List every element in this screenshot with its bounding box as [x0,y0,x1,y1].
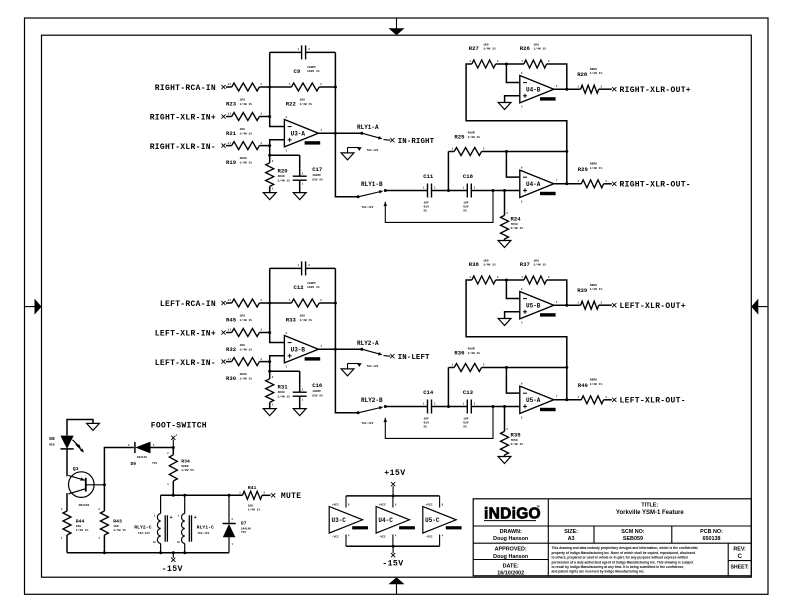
wire RIGHT-XLR-IN+ input row [226,116,232,118]
svg-text:IN-LEFT: IN-LEFT [398,354,430,362]
op-amp U4-C power section [376,507,409,534]
svg-text:68R0: 68R0 [590,284,597,287]
title block frame [473,499,751,576]
wire inverter minus input [506,64,519,83]
wire Q3 collector to R44 [66,493,68,511]
svg-text:C12: C12 [294,284,305,291]
svg-text:C11: C11 [423,173,434,180]
junction U4B output [565,88,568,91]
junction RLY-B contact [384,189,387,192]
svg-text:7K50: 7K50 [511,439,518,442]
wire LEFT-XLR-IN+ input row [226,332,232,334]
svg-text:1/4W 1%: 1/4W 1% [240,160,253,164]
svg-text:1/4W 1%: 1/4W 1% [240,318,253,322]
svg-text:2N4403: 2N4403 [79,504,90,507]
svg-text:1/2W 5%: 1/2W 5% [181,468,194,472]
relay coil RLY2-C [160,495,162,513]
svg-text:PCB NO:: PCB NO: [700,529,723,535]
wire RLY1-B NC branch [384,202,388,206]
svg-text:63V: 63V [463,206,469,209]
wire R27-R26 [496,279,524,281]
svg-text:100V 1%: 100V 1% [307,286,320,289]
wire R22 to output node [319,302,335,304]
left centering mark [25,306,36,308]
svg-text:permission of a duly authorize: permission of a duly authorized agent of… [552,560,695,564]
ground under R24 [498,457,511,464]
svg-text:U3-C: U3-C [332,517,347,524]
svg-text:iNDiGO: iNDiGO [484,506,541,523]
svg-text:1K0: 1K0 [240,315,246,318]
junction output feedback [565,182,568,185]
op-amp U3-A [284,120,318,147]
wire output stage loop [466,64,567,184]
wire C11 to C18 [432,190,468,192]
resistor R32 [232,329,260,337]
svg-text:1/4W 1%: 1/4W 1% [468,135,481,139]
svg-text:-15V: -15V [382,560,403,569]
resistor R37 [524,276,547,284]
svg-text:1K0: 1K0 [300,99,306,102]
wire U4A output [554,399,582,401]
svg-text:U4-A: U4-A [526,181,541,188]
svg-text:T02-12V: T02-12V [138,532,150,535]
svg-text:1/4W 1%: 1/4W 1% [534,47,547,51]
op-amp U3-B [284,336,318,363]
relay coil RLY1-C [184,495,186,513]
wire U4-C power pins [392,496,394,508]
svg-text:1UF: 1UF [424,202,430,205]
svg-text:U3-B: U3-B [291,346,306,353]
svg-text:R39: R39 [577,287,588,294]
svg-text:DRAWN:: DRAWN: [500,529,522,535]
svg-text:RIGHT-XLR-IN+: RIGHT-XLR-IN+ [150,114,216,123]
bottom centering mark [396,584,398,595]
svg-text:-VCC: -VCC [379,535,386,538]
svg-text:1N4148: 1N4148 [137,456,147,459]
svg-text:+15V: +15V [384,469,405,478]
junction output feedback [565,398,568,401]
svg-text:1/4W 1%: 1/4W 1% [534,263,547,267]
svg-text:R31: R31 [278,384,289,391]
svg-text:63V 5%: 63V 5% [312,394,323,397]
svg-text:REV:: REV: [733,547,746,553]
junction supply rails [392,494,395,497]
junction mid node [447,405,450,408]
capacitor C14 [427,400,429,414]
svg-text:16/10/2002: 16/10/2002 [497,571,524,577]
svg-text:-VCC: -VCC [425,535,432,538]
svg-text:SCM NO:: SCM NO: [621,529,645,535]
svg-text:U4-C: U4-C [378,517,393,524]
wire negative supply rail [346,545,440,547]
svg-text:Doug Hanson: Doug Hanson [493,536,528,542]
svg-text:Q3: Q3 [73,466,79,472]
svg-text:D9: D9 [131,461,137,467]
capacitor C16 [270,370,300,372]
op-amp U5-B [520,292,554,319]
junction summing node [268,86,271,89]
svg-text:APPROVED:: APPROVED: [495,547,527,553]
svg-text:T02-12V: T02-12V [198,532,210,535]
resistor R24 to ground [504,191,506,216]
svg-text:4K99: 4K99 [240,157,247,160]
svg-text:1K0: 1K0 [240,128,246,131]
node -15V [392,546,394,553]
node input port RIGHT-XLR-IN- [221,144,225,148]
wire LEFT-RCA-IN input row [226,302,232,304]
svg-text:SIZE:: SIZE: [564,529,578,535]
wire LED to Q3 emitter [66,449,68,476]
svg-text:1K0: 1K0 [240,99,246,102]
svg-text:IN-RIGHT: IN-RIGHT [398,138,435,146]
node input port RIGHT-RCA-IN [221,85,225,89]
svg-text:499R: 499R [468,348,475,351]
svg-text:C14: C14 [423,389,434,396]
svg-text:1/4W 1%: 1/4W 1% [240,376,253,380]
wire inverting input drop [506,152,519,178]
wire noninverting input [270,140,285,155]
svg-text:C16: C16 [312,382,323,389]
wire LED anode to ground [67,420,93,436]
svg-text:+VCC: +VCC [379,503,386,506]
svg-text:1UF: 1UF [424,418,430,421]
node input port LEFT-XLR-IN- [221,360,225,364]
ground under C17 [293,193,306,200]
ground under R20 [263,409,276,416]
junction feedback node [334,302,337,305]
LED D8 [60,436,73,449]
junction feedback tee [505,366,508,369]
relay switch RLY2-B [357,411,360,414]
svg-text:63V: 63V [463,422,469,425]
wire C18 to op-amp + [471,406,520,408]
svg-text:T02-12V: T02-12V [367,365,379,368]
svg-text:100PF: 100PF [312,390,321,393]
svg-text:RLY1-B: RLY1-B [361,181,383,188]
wire op-amp output [318,348,361,350]
resistor R43 [100,511,108,535]
svg-text:FOOT-SWITCH: FOOT-SWITCH [151,422,207,431]
svg-text:1K0: 1K0 [534,259,540,262]
ground above LED [87,423,100,430]
ground under R20 [263,193,276,200]
right centering mark [758,306,769,308]
resistor R25 feedback [447,152,449,191]
svg-text:1/4W 1%: 1/4W 1% [483,47,496,51]
junction xlr-minus node [268,144,271,147]
wire R26 to output [547,64,567,89]
svg-text:63V: 63V [424,206,430,209]
svg-text:U3-A: U3-A [291,130,306,137]
svg-text:to recall by Indigo Manufactur: to recall by Indigo Manufacturing at any… [552,565,685,569]
svg-text:1/4W 1%: 1/4W 1% [248,508,261,512]
svg-text:1/4W 1%: 1/4W 1% [300,318,313,322]
node -15V footswitch [172,553,174,558]
top centering mark [396,18,398,29]
junction inverter input [505,279,508,282]
svg-text:LEFT-XLR-OUT-: LEFT-XLR-OUT- [620,397,686,406]
svg-text:R35: R35 [511,432,522,439]
svg-text:RLY1-A: RLY1-A [357,124,379,131]
node port IN-LEFT [390,354,394,358]
resistor R22 [291,83,319,91]
svg-text:DATE:: DATE: [503,564,519,570]
svg-text:1/4W 1%: 1/4W 1% [590,71,603,75]
svg-text:1UF: 1UF [463,418,469,421]
resistor R31 [269,371,271,379]
svg-text:U4-B: U4-B [526,86,541,93]
svg-text:R22: R22 [286,100,297,107]
junction feedback node [334,86,337,89]
wire inverter plus to ground [505,96,520,103]
svg-text:R19: R19 [226,159,237,166]
ground RLY1-A NC [341,153,354,160]
svg-text:68R0: 68R0 [590,68,597,71]
junction negative rail dots [103,551,106,554]
resistor R36 feedback [447,368,449,407]
svg-text:R30: R30 [226,375,237,382]
svg-text:4K99: 4K99 [240,373,247,376]
svg-text:1K0: 1K0 [483,259,489,262]
resistor R44 [63,511,71,535]
svg-text:5%: 5% [424,210,428,213]
svg-text:to others, prepared or used in: to others, prepared or used in whole or … [552,556,689,560]
svg-text:1K0: 1K0 [248,505,254,508]
junction RLY-B contact [384,405,387,408]
svg-text:U5-C: U5-C [425,517,440,524]
svg-text:1/4W 1%: 1/4W 1% [300,102,313,106]
resistor R23 [232,83,260,91]
node terminal above R34 [172,440,174,448]
wire signal row [385,190,427,192]
svg-text:680R: 680R [181,465,188,468]
svg-text:R27: R27 [469,45,479,52]
wire summing node vertical [270,268,285,342]
svg-text:1/4W 1%: 1/4W 1% [76,528,89,532]
svg-text:R29: R29 [578,166,589,173]
resistor R26 [524,60,547,68]
inner border frame [42,35,752,577]
wire R44 to rail [66,535,68,553]
ground at U4B plus [498,319,511,326]
wire RLY1-A NC contact to ground [348,147,360,149]
resistor R29 [581,180,603,188]
junction NC return / R24 [492,189,495,192]
wire R27-R26 [496,63,524,65]
node input port LEFT-RCA-IN [221,301,225,305]
resistor R45 [232,299,260,307]
svg-text:1/4W 1%: 1/4W 1% [590,382,603,386]
svg-text:U5-B: U5-B [526,302,541,309]
node input port RIGHT-XLR-IN+ [221,114,225,118]
svg-text:R21: R21 [226,130,237,137]
svg-text:RLY2-B: RLY2-B [361,397,383,404]
wire inverter plus to ground [505,312,520,319]
svg-text:1/4W 1%: 1/4W 1% [511,442,524,446]
op-amp U4-A [520,170,554,197]
resistor R35 to ground [504,407,506,432]
svg-text:68R0: 68R0 [590,379,597,382]
svg-text:LEFT-XLR-OUT+: LEFT-XLR-OUT+ [620,302,686,311]
svg-text:C18: C18 [463,173,474,180]
svg-text:1/4W 1%: 1/4W 1% [483,263,496,267]
svg-text:+: + [194,515,197,521]
svg-text:C: C [737,553,742,560]
wire noninverting input [270,356,285,371]
svg-text:1/4W 1%: 1/4W 1% [468,351,481,355]
wire R22 to output node [319,86,335,88]
wire base node up to D9 [104,448,133,485]
diode D7 1N4148 [228,495,230,523]
svg-text:Doug Hanson: Doug Hanson [493,554,528,560]
node port IN-RIGHT [390,138,394,142]
svg-text:100PF: 100PF [307,66,316,69]
svg-text:LEFT-RCA-IN: LEFT-RCA-IN [160,300,216,309]
capacitor C11 [427,184,429,198]
ground RLY2-A NC [341,369,354,376]
svg-text:75V: 75V [152,462,157,465]
svg-text:RIGHT-XLR-OUT-: RIGHT-XLR-OUT- [620,181,691,190]
svg-text:1/4W 1%: 1/4W 1% [240,131,253,135]
svg-text:property of Indigo Manufacturi: property of Indigo Manufacturing Inc. No… [552,551,696,555]
op-amp U5-A [520,386,554,413]
svg-text:7K50: 7K50 [511,223,518,226]
svg-text:T02-12V: T02-12V [362,422,374,425]
wire output to RLY-B [335,133,358,197]
node port MUTE [271,493,275,497]
svg-text:+VCC: +VCC [425,503,432,506]
relay switch RLY2-A [360,348,363,351]
svg-text:Yorkville YSM-1 Feature: Yorkville YSM-1 Feature [616,510,684,516]
wire base node down to R43 [103,485,105,511]
node port LEFT-XLR-OUT+ [612,303,616,307]
svg-text:D7: D7 [241,521,247,527]
svg-text:1N4148: 1N4148 [241,528,251,531]
resistor R28 [581,85,599,93]
svg-text:1/4W 1%: 1/4W 1% [240,347,253,351]
wire feedback right vertical [334,52,336,133]
wire feedback right vertical [334,268,336,349]
wire inverter minus input [506,280,519,299]
wire U4B output [554,304,581,306]
svg-text:R45: R45 [226,316,237,323]
wire output to RLY-B [335,349,358,413]
svg-text:1/4W 1%: 1/4W 1% [511,226,524,230]
wire C11 to C18 [432,406,468,408]
svg-text:R43: R43 [113,519,122,525]
junction feedback tee [505,150,508,153]
svg-text:A3: A3 [568,536,575,542]
svg-text:1/4W 1%: 1/4W 1% [590,287,603,291]
wire U4B output [554,88,581,90]
wire U3-C power pins [345,496,347,508]
wire op-amp output [318,132,361,134]
wire positive supply rail [346,495,440,497]
svg-text:+: + [170,515,173,521]
capacitor C18 [466,184,468,198]
svg-text:63V 5%: 63V 5% [312,178,323,181]
wire signal row [385,406,427,408]
svg-text:4K99: 4K99 [278,175,285,178]
node port RIGHT-XLR-OUT+ [612,87,616,91]
wire RIGHT-XLR-IN- input row [226,145,232,147]
svg-text:-15V: -15V [162,565,183,574]
node port LEFT-XLR-OUT- [612,398,616,402]
junction rail dots [172,494,175,497]
svg-text:RIGHT-RCA-IN: RIGHT-RCA-IN [155,84,216,93]
svg-text:R37: R37 [520,261,530,268]
svg-text:4K99: 4K99 [278,391,285,394]
ground under C17 [293,409,306,416]
svg-text:T02-12V: T02-12V [367,149,379,152]
svg-text:R25: R25 [454,133,465,140]
svg-text:63V: 63V [424,422,430,425]
wire inverting input drop [506,368,519,394]
svg-text:and patent rights are reserved: and patent rights are reserved by Indigo… [552,570,645,574]
wire RLY2-B NC branch [384,418,388,422]
ground under R24 [498,241,511,248]
svg-text:1/4W 1%: 1/4W 1% [590,166,603,170]
svg-text:1K0: 1K0 [300,315,306,318]
node input port LEFT-XLR-IN+ [221,330,225,334]
svg-text:This drawing and data embody p: This drawing and data embody proprietary… [552,546,698,550]
capacitor C17 [270,154,300,156]
svg-text:R28: R28 [577,71,588,78]
capacitor C9 feedback [270,51,302,53]
junction D9 / R34 node [172,446,175,449]
svg-text:R33: R33 [286,316,297,323]
wire LEFT-XLR-IN- input row [226,361,232,363]
svg-text:D8: D8 [49,436,55,442]
svg-text:SHEET:: SHEET: [730,565,749,571]
svg-text:1K0: 1K0 [483,43,489,46]
svg-text:R23: R23 [226,100,237,107]
svg-text:SEB059: SEB059 [623,536,643,542]
svg-text:TITLE:: TITLE: [641,502,658,508]
ground at U4B plus [498,103,511,110]
svg-text:RIGHT-XLR-OUT+: RIGHT-XLR-OUT+ [620,86,691,95]
op-amp U5-C power section [423,507,456,534]
resistor R34 [172,448,174,455]
wire RIGHT-RCA-IN input row [226,86,232,88]
wire output stage loop [466,280,567,400]
wire U4A output [554,183,582,185]
svg-text:R36: R36 [454,349,465,356]
junction summing node [268,302,271,305]
resistor R41 [243,491,263,499]
svg-text:LEFT-XLR-IN-: LEFT-XLR-IN- [155,359,216,368]
svg-text:RIGHT-XLR-IN-: RIGHT-XLR-IN- [150,143,216,152]
wire summing node vertical [270,52,285,126]
resistor R19 [232,142,260,150]
node port RIGHT-XLR-OUT- [612,182,616,186]
resistor R33 [291,299,319,307]
resistor R39 [581,301,599,309]
svg-text:T02-12V: T02-12V [362,206,374,209]
svg-text:R20: R20 [278,168,289,175]
svg-text:100PF: 100PF [307,282,316,285]
svg-text:R34: R34 [181,459,190,465]
svg-text:R24: R24 [511,216,522,223]
resistor R38 [472,276,496,284]
svg-text:1/4W 1%: 1/4W 1% [240,102,253,106]
wire R26 to output [547,280,567,305]
resistor R27 [472,60,496,68]
svg-text:-VCC: -VCC [332,535,339,538]
svg-text:1/4W 1%: 1/4W 1% [113,528,126,532]
junction U4B output [565,304,568,307]
svg-text:1UF: 1UF [463,202,469,205]
